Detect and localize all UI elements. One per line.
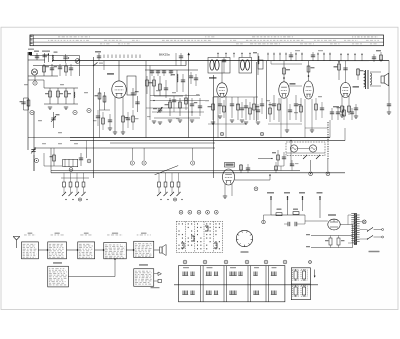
supply stub 1	[270, 196, 272, 215]
diagonal wire	[155, 166, 179, 175]
center dense grounds	[152, 120, 156, 122]
node circled 10	[191, 161, 195, 165]
wire	[24, 97, 29, 99]
resistor network bottom wire	[44, 103, 78, 105]
IFT1 can	[208, 58, 230, 74]
resistor R8	[104, 92, 106, 110]
extra circled mid	[220, 132, 224, 136]
arrow B2-B3	[67, 249, 78, 251]
wire to speaker	[370, 71, 381, 73]
terminal circled B	[326, 172, 330, 176]
top stubs center	[175, 53, 177, 66]
electrolytic C22	[337, 238, 340, 245]
wire mains leads	[374, 229, 382, 231]
tube V1 ECC85	[112, 81, 126, 98]
mains switch S2b	[368, 236, 374, 240]
node circled 9	[142, 161, 146, 165]
wire V5 pins	[341, 96, 343, 115]
capacitor C16	[273, 95, 275, 120]
tube V7 rectifier AZ	[328, 219, 340, 230]
left join wires	[28, 137, 70, 139]
resistor R16	[253, 104, 256, 110]
switch bank A frame	[61, 177, 89, 179]
node circled 11	[254, 187, 258, 191]
resistor R10	[153, 76, 155, 96]
mini table coil 2	[303, 271, 306, 279]
node circled 4	[87, 108, 91, 112]
label V1	[107, 73, 114, 75]
header table row line 2	[30, 41, 384, 43]
filter rail bottom	[311, 247, 353, 249]
block B7 title	[139, 264, 148, 265]
wire transformer left	[348, 214, 351, 216]
resistor R7 left of V1	[99, 88, 101, 110]
capacitor C5	[23, 98, 25, 110]
flow footnote	[151, 287, 160, 288]
wire V2 pins	[217, 96, 219, 138]
wire	[28, 75, 58, 77]
wire	[305, 220, 328, 222]
wire AGC rail x93.5	[93, 57, 95, 178]
coil table divider 4	[265, 266, 267, 302]
fuse F1	[276, 213, 282, 216]
coil table divider 2	[223, 266, 225, 302]
node circled 7	[87, 159, 91, 163]
switch bank A elements	[63, 173, 65, 182]
grid stopper join	[289, 85, 302, 87]
speaker LS1	[381, 76, 384, 83]
ground	[211, 121, 215, 123]
output transformer T1 core	[365, 70, 367, 89]
wire	[34, 76, 36, 81]
small parts row under bus	[151, 70, 153, 76]
coil table divider 3	[247, 266, 249, 302]
wire bus C	[145, 69, 198, 71]
block B1 RF input	[22, 242, 39, 259]
wire	[278, 165, 284, 167]
svg-text:B6X25a: B6X25a	[159, 53, 170, 57]
resistor R4	[65, 88, 67, 104]
tuning capacitor CT1	[53, 112, 55, 128]
bottom small circle 7	[309, 261, 312, 264]
right cluster parts	[277, 155, 280, 160]
center dense jumper rows	[150, 100, 205, 102]
wire V1 pins	[114, 97, 116, 132]
matrix circled 7	[188, 210, 192, 214]
block B7 power supply	[134, 269, 154, 287]
IFT1 primary coil	[210, 60, 214, 70]
coil table divider 1	[200, 266, 202, 302]
block B2 mixer	[48, 242, 67, 259]
tube socket label	[241, 251, 249, 253]
terminal	[262, 220, 266, 224]
tube V4 EABC80	[304, 81, 314, 99]
resistor R13	[179, 98, 181, 116]
capacitor C12	[191, 98, 193, 116]
tube V3 EF89	[279, 82, 289, 98]
resistor above V1	[103, 61, 105, 70]
V1 lower strings	[96, 115, 100, 117]
IFT2 secondary coil	[246, 60, 250, 70]
mini table coil 4	[303, 287, 306, 295]
switch position matrix marks	[179, 223, 180, 224]
label B1U23	[369, 251, 380, 253]
node circled 8	[130, 161, 134, 165]
cap C19	[354, 107, 358, 109]
arrow B4-B5	[126, 249, 134, 251]
trimmer cap CT2	[31, 149, 35, 151]
labels scatter left	[24, 84, 28, 85]
oscillator coil L3	[176, 70, 178, 92]
coil table frame	[179, 266, 285, 302]
ground	[168, 119, 172, 121]
mini table center line	[291, 283, 310, 285]
right top stub caps	[311, 54, 315, 56]
wire mid bus 2	[70, 140, 345, 142]
node circled 3	[73, 110, 77, 114]
mid extra parts2	[240, 107, 244, 109]
pilot lamp	[362, 220, 366, 224]
wire pots link	[298, 148, 310, 150]
wire riser x266	[265, 61, 267, 119]
wire top bus A	[52, 60, 389, 62]
right top labels	[295, 50, 300, 51]
wire V3 pins	[280, 98, 282, 138]
cap C20	[387, 103, 391, 105]
v join x345	[344, 128, 346, 141]
op cap above V1	[97, 55, 101, 57]
wire drop x291	[290, 141, 292, 166]
rc extra2	[315, 104, 318, 110]
wire out top	[337, 60, 369, 62]
capacitor C11	[182, 74, 184, 92]
resistor R24	[293, 212, 299, 215]
supply stub 2	[287, 196, 289, 215]
matrix circled 9	[206, 210, 210, 214]
block B3 IF amp	[78, 242, 95, 259]
top stubs over IFT	[217, 53, 219, 58]
coil cell2 windings	[206, 272, 208, 276]
wire V2 anode	[221, 61, 223, 83]
block B5 title	[141, 233, 147, 234]
terminal circled A	[309, 172, 313, 176]
tube V2 EBF89	[217, 83, 227, 97]
grid leak parts	[246, 167, 250, 169]
label V2	[209, 77, 217, 79]
labels scatter center	[156, 90, 160, 91]
tone switch arrows	[303, 155, 307, 159]
coupling box	[258, 60, 263, 69]
label V3	[290, 83, 296, 85]
mini table coil 1	[294, 271, 297, 279]
label V5	[353, 86, 360, 88]
top stubs right2	[267, 53, 269, 61]
bottom circled 1	[183, 260, 187, 264]
wire mid bus 1	[70, 137, 330, 139]
wire top connect V3V4	[271, 63, 302, 65]
ground	[285, 129, 289, 131]
IFT2 primary coil	[241, 60, 245, 70]
arrow B3-B4	[95, 249, 104, 251]
resistor R15	[237, 104, 240, 110]
mini table coil 3	[294, 287, 297, 295]
IF can near V1	[127, 76, 136, 95]
wire lower bus 2	[51, 172, 345, 174]
left label row above bus	[42, 143, 46, 144]
matrix bracket marks	[191, 236, 194, 241]
wire right rail	[388, 61, 390, 100]
wire	[53, 148, 55, 153]
resistor R23	[240, 164, 242, 173]
resistor R18	[300, 98, 302, 122]
capacitor C14	[230, 103, 234, 105]
corner connector mark	[29, 52, 32, 55]
B7 output symbol 1	[154, 273, 158, 275]
volume control box	[286, 142, 325, 156]
center extra res	[146, 80, 149, 86]
wire top-left join	[28, 59, 45, 61]
filter rail top	[311, 235, 353, 237]
pot P1	[290, 145, 297, 152]
IFT3 coil	[257, 53, 259, 75]
caps pair	[287, 222, 289, 226]
resistor R12	[169, 98, 171, 116]
block B4 detector	[104, 243, 127, 259]
ground	[340, 114, 344, 116]
matrix circled 10	[214, 210, 218, 214]
switch bank A terminals	[65, 199, 66, 200]
mid extra parts1	[218, 103, 222, 105]
resistor R6	[53, 153, 55, 166]
center jumper	[150, 95, 200, 97]
IFT1 trim caps	[222, 59, 226, 61]
wire	[143, 148, 145, 160]
block B5 output stage	[134, 241, 154, 257]
band switch box S1	[63, 159, 78, 167]
resistor R5	[28, 98, 30, 110]
ps stub dots	[270, 198, 272, 200]
capacitor C7 right of V1	[132, 88, 134, 108]
tube V5 EL95	[340, 83, 350, 98]
wire EM feed	[258, 158, 272, 160]
rc extra1	[269, 108, 272, 114]
coil cell1 windings	[182, 272, 184, 276]
resistor R11	[159, 76, 161, 96]
capacitor C18	[345, 61, 347, 83]
bottom circled 2	[203, 260, 207, 264]
wire left riser	[86, 148, 88, 158]
block B4 title	[112, 233, 118, 234]
capacitor C3	[47, 53, 49, 62]
capacitor C13	[199, 98, 201, 116]
coil cell3 windings	[229, 272, 231, 276]
wire left rail	[27, 52, 29, 150]
resistor R22	[348, 106, 351, 112]
output transformer T1 secondary	[370, 73, 372, 85]
capacitor C6	[79, 157, 83, 159]
wire B6 to B4	[68, 276, 115, 278]
resistor R20	[357, 68, 359, 80]
wire	[33, 155, 35, 171]
wire transformer to switch	[360, 229, 368, 231]
header row2 text	[48, 39, 49, 42]
wire vertical join x51	[50, 148, 52, 173]
capacitor C2	[44, 53, 46, 63]
tuning cap CT3	[158, 107, 163, 113]
center dots	[153, 100, 154, 101]
mini table frame	[291, 268, 310, 300]
resistor R2	[49, 88, 51, 104]
label rectifier	[328, 214, 336, 216]
bottom circled 3	[224, 260, 228, 264]
capacitor C9 below V1	[108, 119, 112, 121]
wire	[100, 109, 111, 111]
block B2 title	[55, 233, 60, 234]
power transformer T2 primary winding	[351, 213, 354, 215]
IFT2 can	[239, 58, 252, 74]
center horizontal jumpers	[146, 107, 188, 109]
transistor mark x76	[75, 59, 80, 64]
resistor network top wire	[44, 87, 78, 89]
switch bank B elements	[158, 173, 160, 182]
wire	[310, 160, 312, 171]
wire top bus B	[33, 65, 186, 67]
wire riser x150	[149, 66, 151, 121]
mid extra labels	[147, 116, 151, 117]
block B1 title	[28, 233, 33, 234]
resistor above V3	[283, 61, 285, 82]
coil L2	[73, 88, 75, 104]
ground V1 cathode	[113, 131, 117, 133]
wire	[304, 215, 306, 224]
wire	[330, 236, 332, 239]
electrolytic C21	[329, 238, 332, 245]
resistor R3	[57, 88, 59, 104]
shield box top edge	[30, 55, 80, 57]
top right caps cluster	[330, 111, 334, 113]
node circled 5	[34, 158, 38, 162]
header table frame	[30, 35, 384, 46]
speaker symbol flow	[160, 247, 163, 253]
wire left rail lower	[33, 111, 35, 171]
resistor R21	[341, 106, 344, 112]
wire	[154, 95, 183, 97]
antenna symbol	[16, 240, 18, 248]
transistor-like input device	[31, 69, 37, 75]
table arrow	[314, 270, 316, 278]
top stubs far right	[340, 53, 342, 61]
switch position matrix	[176, 221, 222, 252]
wire lower bus 1	[51, 170, 300, 172]
antenna input cap C1	[36, 53, 38, 60]
center extra caps	[189, 75, 193, 77]
bottom circled 6	[283, 260, 287, 264]
rc link wires	[268, 123, 302, 125]
wire EM84 right	[235, 179, 271, 181]
pot P2	[309, 145, 316, 152]
block B3 title	[84, 233, 89, 234]
block B6 oscillator	[48, 266, 69, 287]
top stub caps row	[150, 70, 154, 72]
supply stub 3	[302, 196, 304, 211]
capacitor C4	[51, 64, 53, 76]
node circled 6	[69, 168, 73, 172]
arrow stub x188	[188, 53, 190, 56]
capacitor C8	[137, 96, 139, 112]
tube V6 EM84	[223, 169, 235, 185]
parts below decoder	[275, 166, 278, 170]
resistor R17	[278, 98, 280, 122]
ground below V1	[108, 127, 112, 129]
wire	[43, 80, 45, 88]
resistor R9 below V1	[122, 116, 125, 122]
dial pointer arrow	[93, 63, 98, 67]
wire	[154, 117, 200, 119]
power transformer T2 core	[354, 214, 357, 245]
coil L1	[52, 55, 54, 62]
wire mid bus 3	[110, 142, 215, 144]
output transformer T1 primary	[364, 71, 366, 87]
header row1 text	[58, 35, 60, 38]
wire riser x146	[145, 61, 147, 138]
tube socket bottom view	[236, 230, 252, 246]
wire	[213, 96, 258, 98]
right top stubs	[295, 53, 297, 61]
matrix circled 8	[197, 210, 201, 214]
dial cord dashed	[327, 122, 329, 159]
switch bank B terminals	[160, 199, 161, 200]
mains switch S2a	[368, 228, 374, 232]
capacitor C15	[244, 105, 248, 107]
node circled 2	[30, 110, 34, 114]
header table row line 1	[30, 38, 384, 40]
block B6 title	[53, 262, 62, 263]
header table left label column	[30, 35, 33, 46]
wire V1 anode riser	[118, 61, 120, 81]
wire EM84 pins	[224, 184, 226, 196]
IFT1 secondary coil	[215, 60, 219, 70]
mid ground row	[218, 115, 222, 117]
header row3 text	[100, 42, 102, 45]
supply stub 4	[319, 196, 321, 218]
power transformer T2 secondary winding	[357, 214, 360, 216]
v join x330	[329, 120, 331, 138]
resistor R14	[212, 104, 215, 110]
wire mid-left bus	[34, 147, 215, 149]
arrow B1-B2	[38, 249, 47, 251]
wire V4 pins	[304, 99, 306, 138]
coil table chassis line	[174, 284, 318, 286]
center dense caps A	[172, 99, 176, 101]
resistor R19	[338, 61, 340, 80]
wire AGC rail x213.5	[213, 75, 215, 178]
node circled 1	[33, 81, 37, 85]
coil cell5 windings	[271, 272, 273, 276]
cap row topleft	[58, 66, 62, 68]
bottom circled 4	[245, 260, 249, 264]
top right small parts	[372, 56, 376, 58]
bottom circled 5	[264, 260, 268, 264]
extra grounds left	[48, 106, 52, 108]
wire rail x256.5	[256, 62, 258, 121]
arrow B5-speaker	[154, 249, 160, 251]
wire supply bus	[271, 214, 305, 216]
wire riser x188.7	[188, 53, 190, 138]
resistor R1	[43, 64, 45, 76]
capacitor C10	[165, 80, 167, 98]
B7 output symbol 2	[154, 280, 158, 282]
resistor above V4	[308, 61, 310, 81]
